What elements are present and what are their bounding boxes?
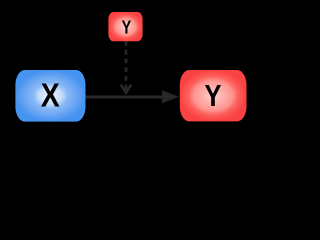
svg-text:Y: Y (122, 17, 132, 38)
wire solid arrow shaft X to Y (84, 95, 163, 98)
wire dashed shaft Y-top to arrow (125, 41, 128, 88)
svg-text:X: X (41, 77, 60, 114)
node X (blue box) (15, 70, 85, 122)
node Y top small (red box) (108, 12, 142, 41)
arrowhead open vee (121, 85, 132, 93)
wire dash tail into vee (125, 87, 128, 91)
arrowhead solid (162, 90, 179, 103)
node Y right (red box) (180, 70, 247, 121)
svg-text:Y: Y (205, 78, 222, 113)
